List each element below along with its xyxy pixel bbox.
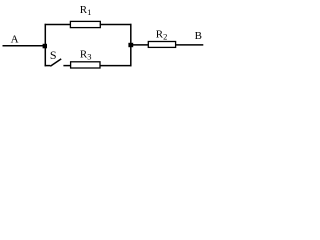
svg-text:A: A — [11, 33, 19, 45]
node left junction — [43, 44, 47, 49]
svg-text:B: B — [195, 30, 202, 42]
wire top left to R1 — [45, 24, 71, 26]
svg-text:S: S — [50, 48, 57, 62]
wire bottom stub from left — [45, 65, 51, 67]
switch S blade — [50, 59, 61, 66]
node right junction — [128, 43, 133, 47]
resistor R3 — [71, 62, 100, 68]
wire R3 to bottom right — [100, 65, 132, 67]
resistor R1 — [70, 21, 100, 27]
wire right vertical — [130, 24, 132, 67]
wire A to left junction — [3, 45, 47, 47]
wire switch to R3 — [63, 65, 71, 67]
wire left vertical — [44, 24, 46, 67]
resistor R2 — [148, 42, 175, 48]
wire right junction to R2 — [131, 44, 149, 46]
wire R1 to top right — [100, 24, 132, 26]
wire R2 to B — [176, 44, 204, 46]
